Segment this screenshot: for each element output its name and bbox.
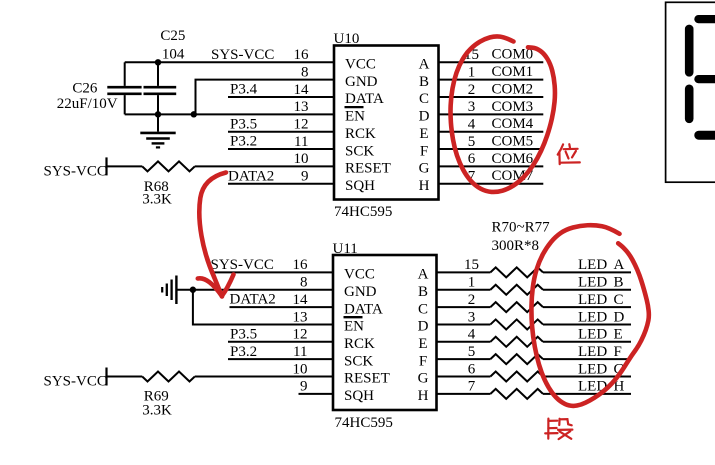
pin number 9 (U11) — [300, 379, 308, 395]
wire U10 pin 6 to COM6 — [439, 165, 544, 167]
svg-text:COM4: COM4 — [492, 116, 534, 132]
annotation: red arrow DATA2 to DATA2 — [198, 173, 234, 297]
wire R71 to LED B — [543, 289, 631, 291]
svg-text:LED: LED — [578, 361, 607, 377]
U10 pin name EN — [345, 109, 365, 125]
wire U11 pin 7 to R77 — [437, 393, 491, 395]
svg-text:F: F — [614, 344, 622, 360]
wire SYS-VCC port to R69 — [107, 376, 143, 378]
label U10 — [334, 31, 360, 47]
svg-text:B: B — [614, 275, 624, 291]
svg-text:F: F — [419, 353, 427, 369]
svg-text:U10: U10 — [334, 31, 360, 47]
svg-text:LED: LED — [578, 292, 607, 308]
pin number 9 (U10) — [301, 169, 309, 185]
svg-text:C: C — [419, 91, 429, 107]
wire U11 pin 15 to R70 — [437, 271, 491, 273]
label 300R*8 — [492, 238, 540, 254]
wire P3.2 to U10 pin 11 — [228, 148, 334, 150]
label 74HC595 (U11) — [335, 415, 393, 431]
net label SYS-VCC (U10) — [211, 47, 274, 63]
U11 pin name DATA — [344, 301, 383, 317]
net label LED G — [578, 361, 625, 377]
U10 output D — [419, 109, 430, 125]
svg-text:8: 8 — [301, 64, 309, 80]
wire ground to U11 pin 8 GND — [177, 289, 333, 291]
pin number 7 (U10 right) — [468, 169, 476, 185]
U11 pin name RESET — [344, 371, 390, 387]
svg-text:E: E — [419, 126, 428, 142]
svg-text:COM5: COM5 — [492, 133, 534, 149]
svg-text:8: 8 — [300, 275, 308, 291]
label U11 — [333, 241, 358, 257]
wire stub U11 pin 9 SQH — [299, 393, 334, 395]
svg-text:C: C — [418, 301, 428, 317]
svg-text:D: D — [614, 309, 625, 325]
svg-text:RESET: RESET — [344, 371, 390, 387]
U10 output C — [419, 91, 429, 107]
svg-text:A: A — [419, 57, 430, 73]
net label DATA2 (U11) — [230, 292, 276, 308]
pin number 12 (U11) — [293, 327, 308, 343]
U10 pin name SCK — [345, 143, 374, 159]
wire R73 to LED D — [543, 323, 631, 325]
svg-text:6: 6 — [468, 151, 476, 167]
net label DATA2 (U10) — [228, 168, 274, 184]
U11 EN overline — [344, 316, 363, 318]
U11 output G — [418, 371, 429, 387]
capacitor C26 — [107, 62, 141, 114]
svg-text:9: 9 — [300, 379, 308, 395]
svg-text:SQH: SQH — [344, 388, 374, 404]
U11 pin name GND — [344, 284, 377, 300]
svg-text:SQH: SQH — [345, 178, 375, 194]
net label LED F — [578, 344, 622, 360]
svg-text:13: 13 — [294, 99, 309, 115]
wire R76 to LED G — [543, 376, 631, 378]
annotation: red circle around COM0-COM7 — [451, 36, 555, 192]
wire U10 pin 7 to COM7 — [439, 183, 544, 185]
resistor R70 — [490, 267, 543, 277]
U11 pin name SCK — [344, 353, 373, 369]
7-seg segment e (bottom-left) — [685, 85, 694, 124]
svg-text:RESET: RESET — [345, 161, 391, 177]
svg-text:SCK: SCK — [345, 143, 374, 159]
wire U10 pin 4 to COM4 — [439, 131, 544, 133]
wire ground rail to U10 pin 13 EN — [125, 113, 334, 115]
U10 pin name DATA — [345, 91, 384, 107]
U11 pin name VCC — [344, 267, 375, 283]
svg-text:B: B — [418, 284, 428, 300]
svg-text:DATA: DATA — [344, 301, 383, 317]
svg-text:14: 14 — [294, 82, 310, 98]
svg-text:11: 11 — [293, 344, 307, 360]
svg-text:G: G — [418, 371, 429, 387]
svg-text:GND: GND — [345, 74, 378, 90]
svg-text:9: 9 — [301, 169, 309, 185]
wire R72 to LED C — [543, 306, 631, 308]
net label LED D — [578, 309, 625, 325]
U10 output E — [419, 126, 428, 142]
svg-text:12: 12 — [293, 327, 308, 343]
svg-text:10: 10 — [294, 151, 309, 167]
svg-text:RCK: RCK — [344, 336, 375, 352]
net label LED B — [578, 275, 624, 291]
svg-text:SYS-VCC: SYS-VCC — [211, 257, 274, 273]
svg-text:SYS-VCC: SYS-VCC — [44, 374, 107, 390]
net label P3.2 (U11) — [230, 344, 257, 360]
wire R75 to LED F — [543, 358, 631, 360]
U11 pin name SQH — [344, 388, 374, 404]
wire SYS-VCC port to R68 — [107, 165, 143, 167]
U10 pin name RCK — [345, 126, 376, 142]
label R70~R77 — [492, 220, 551, 236]
svg-text:4: 4 — [468, 117, 476, 133]
resistor R76 — [490, 372, 543, 382]
wire U11 pin 5 to R75 — [437, 358, 491, 360]
net label P3.4 — [230, 82, 258, 98]
svg-text:P3.2: P3.2 — [230, 344, 257, 360]
U11 output F — [419, 353, 427, 369]
svg-text:14: 14 — [293, 292, 309, 308]
wire P3.4 to U10 pin 14 — [228, 96, 334, 98]
wire U10 pin 8 GND to ground rail — [196, 80, 335, 115]
pin number 3 (U10 right) — [468, 99, 476, 115]
svg-text:15: 15 — [464, 257, 479, 273]
label 74HC595 (U10) — [334, 204, 392, 220]
U10 pin name GND — [345, 74, 378, 90]
U11 output E — [418, 336, 427, 352]
U11 output D — [418, 319, 429, 335]
label 3.3K (R69) — [142, 402, 172, 418]
svg-text:EN: EN — [345, 109, 365, 125]
svg-text:22uF/10V: 22uF/10V — [57, 96, 118, 112]
pin number 5 (U10 right) — [468, 134, 476, 150]
annotation: red text 位 — [558, 144, 580, 164]
net label COM5 — [492, 133, 534, 149]
svg-text:A: A — [614, 257, 625, 273]
svg-text:P3.5: P3.5 — [230, 116, 257, 132]
U10 EN overline — [345, 106, 364, 108]
pin number 15 (U11 right) — [464, 257, 479, 273]
net label COM7 — [492, 168, 534, 184]
svg-text:EN: EN — [344, 319, 364, 335]
svg-text:E: E — [418, 336, 427, 352]
svg-text:U11: U11 — [333, 241, 358, 257]
pin number 16 (U11) — [293, 257, 309, 273]
svg-text:COM3: COM3 — [492, 99, 534, 115]
pin number 1 (U11 right) — [468, 275, 476, 291]
pin number 5 (U11 right) — [468, 344, 476, 360]
annotation: red circle around LED A-H — [531, 225, 648, 406]
svg-text:D: D — [418, 319, 429, 335]
svg-text:COM1: COM1 — [492, 64, 534, 80]
svg-text:16: 16 — [293, 257, 309, 273]
svg-text:3.3K: 3.3K — [142, 191, 172, 207]
svg-text:SCK: SCK — [344, 353, 373, 369]
svg-text:LED: LED — [578, 257, 607, 273]
wire U11 pin 3 to R73 — [437, 323, 491, 325]
wire U10 pin 1 to COM1 — [439, 79, 544, 81]
svg-text:6: 6 — [468, 361, 476, 377]
7-seg segment g (middle) — [694, 75, 715, 83]
svg-text:DATA: DATA — [345, 91, 384, 107]
net label COM6 — [492, 151, 534, 167]
label 3.3K (R68) — [142, 191, 172, 207]
svg-text:11: 11 — [294, 134, 308, 150]
pin number 11 (U10) — [294, 134, 308, 150]
resistor R77 — [490, 389, 543, 399]
junction node C25 top — [155, 59, 161, 65]
resistor R68 — [142, 161, 195, 171]
U10 output F — [420, 143, 428, 159]
pin number 12 (U10) — [294, 117, 309, 133]
pin number 16 (U10) — [294, 47, 310, 63]
U10 pin name RESET — [345, 161, 391, 177]
resistor R74 — [490, 337, 543, 347]
U10 pin name VCC — [345, 57, 376, 73]
pin number 8 (U11) — [300, 275, 308, 291]
pin number 6 (U11 right) — [468, 361, 476, 377]
wire R70 to LED A — [543, 271, 631, 273]
svg-text:LED: LED — [578, 275, 607, 291]
pin number 10 (U11) — [293, 361, 308, 377]
wire R69 to U11 pin 10 RESET — [195, 376, 333, 378]
svg-text:3: 3 — [468, 309, 476, 325]
net label LED A — [578, 257, 625, 273]
wire R77 to LED H — [543, 393, 631, 395]
net label COM3 — [492, 99, 534, 115]
U10 output B — [419, 74, 429, 90]
net label P3.5 (U10) — [230, 116, 257, 132]
IC U10 74HC595 body — [334, 46, 439, 200]
pin number 7 (U11 right) — [468, 379, 476, 395]
7-seg segment a (top) — [694, 15, 715, 23]
resistor R71 — [490, 285, 543, 295]
svg-text:COM2: COM2 — [492, 81, 534, 97]
pin number 13 (U10) — [294, 99, 309, 115]
svg-text:300R*8: 300R*8 — [492, 238, 540, 254]
svg-text:DATA2: DATA2 — [228, 168, 274, 184]
7-segment display frame — [666, 2, 715, 182]
wire U11 pin 4 to R74 — [437, 341, 491, 343]
wire ground branch to U11 pin 13 EN — [193, 290, 333, 325]
svg-text:P3.2: P3.2 — [230, 134, 257, 150]
pin number 6 (U10 right) — [468, 151, 476, 167]
wire DATA2 to U10 pin 9 — [228, 183, 334, 185]
svg-text:COM6: COM6 — [492, 151, 534, 167]
capacitor C25 — [144, 62, 177, 114]
svg-text:VCC: VCC — [344, 267, 375, 283]
svg-text:2: 2 — [468, 292, 476, 308]
svg-text:D: D — [419, 109, 430, 125]
svg-text:C26: C26 — [72, 81, 98, 97]
svg-text:1: 1 — [468, 275, 476, 291]
wire U11 pin 6 to R76 — [437, 376, 491, 378]
port SYS-VCC (upper left) — [44, 157, 107, 179]
wire R74 to LED E — [543, 341, 631, 343]
pin number 14 (U10) — [294, 82, 310, 98]
svg-text:VCC: VCC — [345, 57, 376, 73]
svg-text:74HC595: 74HC595 — [335, 415, 393, 431]
svg-text:3: 3 — [468, 99, 476, 115]
svg-text:G: G — [419, 161, 430, 177]
7-seg segment d (bottom) — [694, 131, 715, 140]
svg-text:A: A — [418, 267, 429, 283]
wire DATA2 to U11 pin 14 — [230, 306, 334, 308]
svg-text:104: 104 — [162, 46, 185, 62]
7-seg segment f (top-left) — [685, 25, 694, 77]
wire P3.5 to U10 pin 12 — [228, 131, 334, 133]
resistor R73 — [490, 319, 543, 329]
svg-text:E: E — [614, 327, 623, 343]
junction node ground rail / pin8 — [191, 111, 197, 117]
U11 pin name RCK — [344, 336, 375, 352]
pin number 2 (U10 right) — [468, 82, 476, 98]
svg-text:RCK: RCK — [345, 126, 376, 142]
svg-text:16: 16 — [294, 47, 310, 63]
svg-text:13: 13 — [293, 309, 308, 325]
U11 output A — [418, 267, 429, 283]
pin number 4 (U10 right) — [468, 117, 476, 133]
U10 output H — [419, 178, 430, 194]
junction node C25 bottom — [155, 111, 161, 117]
U10 pin name SQH — [345, 178, 375, 194]
label 104 (C25) — [162, 46, 185, 62]
pin number 1 (U10 right) — [468, 64, 476, 80]
svg-text:1: 1 — [468, 64, 476, 80]
svg-text:3.3K: 3.3K — [142, 402, 172, 418]
svg-text:10: 10 — [293, 361, 308, 377]
net label P3.2 (U10) — [230, 134, 257, 150]
svg-text:7: 7 — [468, 379, 476, 395]
wire P3.5 to U11 pin 12 — [228, 341, 333, 343]
svg-text:SYS-VCC: SYS-VCC — [211, 47, 274, 63]
net label P3.5 (U11) — [230, 326, 257, 342]
wire U10 pin 15 to COM0 — [439, 61, 544, 63]
svg-text:B: B — [419, 74, 429, 90]
svg-text:R70~R77: R70~R77 — [492, 220, 551, 236]
svg-text:C25: C25 — [160, 28, 185, 44]
wire R68 to U10 pin 10 RESET — [195, 165, 334, 167]
ground (below C25) — [140, 114, 175, 147]
svg-text:SYS-VCC: SYS-VCC — [44, 163, 107, 179]
svg-text:12: 12 — [294, 117, 309, 133]
svg-text:F: F — [420, 143, 428, 159]
U11 output C — [418, 301, 428, 317]
pin number 4 (U11 right) — [468, 327, 476, 343]
svg-text:2: 2 — [468, 82, 476, 98]
net label COM0 — [492, 47, 534, 63]
svg-text:5: 5 — [468, 344, 476, 360]
resistor R72 — [490, 302, 543, 312]
resistor R69 — [142, 372, 195, 382]
label C25 — [160, 28, 185, 44]
pin number 13 (U11) — [293, 309, 308, 325]
IC U11 74HC595 body — [333, 255, 437, 410]
wire U10 pin 3 to COM3 — [439, 113, 544, 115]
net label COM4 — [492, 116, 534, 132]
label R69 — [144, 389, 169, 405]
svg-text:DATA2: DATA2 — [230, 292, 276, 308]
svg-text:LED: LED — [578, 327, 607, 343]
svg-text:H: H — [418, 388, 429, 404]
wire SYS-VCC to U11 pin 16 — [210, 271, 333, 273]
net label LED C — [578, 292, 624, 308]
U10 output G — [419, 161, 430, 177]
resistor R75 — [490, 354, 543, 364]
wire P3.2 to U11 pin 11 — [228, 358, 333, 360]
U11 output B — [418, 284, 428, 300]
svg-text:74HC595: 74HC595 — [334, 204, 392, 220]
label C26 — [72, 81, 98, 97]
U10 output A — [419, 57, 430, 73]
svg-text:P3.4: P3.4 — [230, 82, 258, 98]
ground (sideways, U11) — [162, 276, 176, 305]
svg-text:GND: GND — [344, 284, 377, 300]
net label SYS-VCC (U11) — [211, 257, 274, 273]
wire U10 pin 2 to COM2 — [439, 96, 544, 98]
U11 output H — [418, 388, 429, 404]
pin number 8 (U10) — [301, 64, 309, 80]
net label LED H — [578, 379, 625, 395]
wire SYS-VCC rail to U10 pin 16 — [125, 61, 334, 63]
svg-text:5: 5 — [468, 134, 476, 150]
label 22uF/10V (C26) — [57, 96, 118, 112]
svg-text:LED: LED — [578, 344, 607, 360]
pin number 11 (U11) — [293, 344, 307, 360]
port SYS-VCC (lower left) — [44, 368, 107, 390]
pin number 14 (U11) — [293, 292, 309, 308]
pin number 10 (U10) — [294, 151, 309, 167]
net label COM1 — [492, 64, 534, 80]
junction node U11 ground — [190, 287, 196, 293]
wire U10 pin 5 to COM5 — [439, 148, 544, 150]
svg-text:H: H — [419, 178, 430, 194]
pin number 3 (U11 right) — [468, 309, 476, 325]
label R68 — [144, 179, 169, 195]
annotation: red text 段 — [545, 419, 572, 440]
U11 pin name EN — [344, 319, 364, 335]
pin number 15 (U10 right) — [464, 47, 479, 63]
pin number 2 (U11 right) — [468, 292, 476, 308]
wire U11 pin 2 to R72 — [437, 306, 491, 308]
svg-text:C: C — [614, 292, 624, 308]
svg-text:LED: LED — [578, 309, 607, 325]
net label LED E — [578, 327, 623, 343]
svg-text:4: 4 — [468, 327, 476, 343]
wire U11 pin 1 to R71 — [437, 289, 491, 291]
svg-text:P3.5: P3.5 — [230, 326, 257, 342]
net label COM2 — [492, 81, 534, 97]
